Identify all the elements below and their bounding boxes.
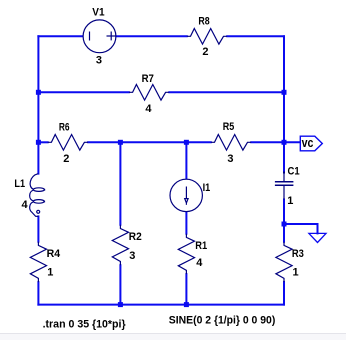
svg-text:R4: R4 — [47, 248, 61, 260]
svg-text:R3: R3 — [292, 248, 304, 260]
svg-text:4: 4 — [196, 257, 203, 269]
svg-text:R5: R5 — [223, 121, 235, 133]
svg-text:R8: R8 — [198, 15, 209, 27]
svg-text:L1: L1 — [14, 178, 25, 190]
svg-text:1: 1 — [293, 267, 299, 279]
svg-text:4: 4 — [22, 199, 29, 211]
svg-text:SINE(0 2 {1/pi} 0 0 90): SINE(0 2 {1/pi} 0 0 90) — [169, 314, 276, 326]
svg-text:3: 3 — [96, 54, 102, 66]
svg-text:1: 1 — [287, 195, 293, 207]
svg-text:C1: C1 — [288, 166, 300, 178]
svg-text:R1: R1 — [195, 240, 207, 252]
svg-text:I1: I1 — [203, 182, 211, 194]
svg-text:R2: R2 — [129, 231, 142, 243]
svg-text:.tran 0 35 {10*pi}: .tran 0 35 {10*pi} — [43, 318, 127, 330]
svg-text:4: 4 — [145, 103, 152, 115]
svg-text:R7: R7 — [142, 73, 154, 85]
svg-text:1: 1 — [47, 267, 53, 279]
svg-text:2: 2 — [202, 46, 208, 58]
svg-text:R6: R6 — [59, 122, 70, 134]
svg-text:V1: V1 — [92, 7, 104, 19]
svg-text:3: 3 — [129, 250, 135, 262]
svg-text:3: 3 — [227, 153, 233, 165]
svg-text:vc: vc — [302, 135, 314, 150]
svg-text:2: 2 — [63, 153, 69, 165]
